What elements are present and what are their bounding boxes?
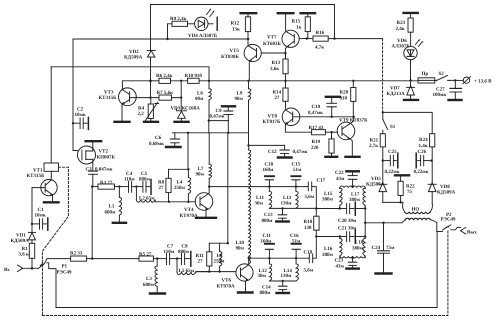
svg-text:R2 33: R2 33: [70, 250, 83, 256]
svg-text:VD6: VD6: [397, 38, 407, 44]
svg-text:C2: C2: [77, 107, 84, 113]
inductor L11: [268, 187, 270, 192]
wire vertical x150.5 mid: [150, 58, 152, 98]
svg-text:R12: R12: [231, 21, 240, 27]
svg-text:1к: 1к: [296, 25, 302, 31]
svg-text:2,4к: 2,4к: [396, 26, 405, 32]
svg-text:Вх: Вх: [4, 267, 10, 273]
svg-text:L9: L9: [237, 91, 243, 97]
inductor L5: [176, 259, 178, 273]
svg-text:2,7к: 2,7к: [369, 143, 378, 149]
relay coil P1: [44, 163, 59, 171]
wire lower input y258.6: [138, 258, 140, 260]
capacitor C13: [269, 207, 316, 209]
wire VD5/R22 to НО: [383, 201, 403, 203]
resistor R8: [168, 169, 170, 178]
node R3 left: [91, 185, 93, 187]
svg-text:75м: 75м: [386, 245, 395, 251]
LED VD4: [195, 17, 208, 30]
ground VD3: [175, 121, 189, 123]
svg-text:880м: 880м: [139, 176, 151, 182]
resistor R7: [159, 95, 172, 100]
svg-text:Пр: Пр: [422, 71, 429, 77]
ground C24: [376, 272, 392, 274]
ground VT9: [346, 156, 360, 158]
capacitor C25: [382, 159, 384, 161]
svg-text:90м: 90м: [236, 246, 245, 252]
svg-text:250м: 250м: [174, 185, 186, 191]
svg-text:L4: L4: [177, 180, 183, 186]
capacitor C10: [268, 185, 270, 187]
svg-text:C13: C13: [264, 212, 273, 218]
svg-text:VT6: VT6: [222, 278, 232, 284]
svg-text:130м: 130м: [281, 273, 293, 279]
inductor L8: [219, 250, 221, 251]
svg-text:130: 130: [304, 225, 312, 231]
resistor R9: [172, 21, 188, 26]
svg-text:C26: C26: [418, 149, 427, 155]
inductor L13: [295, 187, 297, 192]
terminal Вх: [18, 265, 23, 272]
svg-text:КТ315Б: КТ315Б: [27, 173, 45, 179]
power bar R23: [404, 12, 418, 14]
capacitor C20: [339, 207, 341, 209]
transistor VT3: [119, 88, 137, 106]
svg-text:R20: R20: [340, 90, 349, 96]
capacitor C23: [340, 257, 365, 258]
svg-text:5,6м: 5,6м: [305, 194, 315, 200]
svg-text:+ 13,6 В: + 13,6 В: [474, 79, 492, 85]
svg-text:L13: L13: [283, 195, 292, 201]
svg-text:C7: C7: [167, 243, 174, 249]
svg-text:VD5: VD5: [371, 176, 381, 182]
ground VT4: [196, 217, 216, 219]
relay contact P2: [436, 223, 438, 232]
svg-text:880м: 880м: [178, 249, 190, 255]
transformer НО lower winding: [402, 220, 405, 223]
ground C6: [166, 146, 181, 148]
svg-text:160м: 160м: [263, 167, 275, 173]
transistor VT4: [195, 193, 213, 211]
ground C12: [278, 156, 292, 158]
resistor R16: [313, 36, 328, 41]
svg-text:R4: R4: [138, 106, 145, 112]
inductor L7: [208, 178, 210, 186]
capacitor C4: [129, 181, 132, 192]
inductor L10 long: [248, 145, 250, 150]
svg-text:2,2: 2,2: [138, 111, 145, 117]
diode VD7: [407, 86, 415, 88]
resistor R14: [285, 81, 287, 88]
capacitor C18: [307, 257, 310, 259]
svg-text:0,047мк: 0,047мк: [95, 167, 113, 173]
svg-text:30м: 30м: [258, 273, 267, 279]
ground VT1: [44, 201, 59, 203]
capacitor C26: [415, 153, 417, 168]
switch S2: [435, 75, 456, 80]
svg-text:43м: 43м: [336, 263, 345, 269]
ground C23: [346, 267, 358, 269]
wire VT2 source to lower channel: [91, 187, 93, 259]
zener VD3: [177, 109, 187, 111]
capacitor C5: [136, 186, 142, 188]
wire upper channel output y186.6: [209, 186, 307, 188]
transistor VT7: [282, 30, 299, 47]
diode VD5: [382, 161, 384, 185]
inductor L1: [118, 187, 120, 198]
svg-text:130м: 130м: [281, 200, 293, 206]
resistor R13: [285, 53, 287, 59]
svg-text:910: 910: [340, 96, 348, 102]
svg-text:КТ817Б: КТ817Б: [263, 119, 281, 125]
LED VD6: [404, 46, 417, 59]
ground L3: [150, 292, 165, 294]
svg-text:10мк: 10мк: [75, 112, 86, 118]
svg-text:КД509А: КД509А: [11, 238, 30, 244]
node R6-R10 junction: [180, 80, 182, 82]
resistor R6: [159, 78, 171, 83]
svg-text:L7: L7: [198, 166, 204, 172]
wire main rail y80.8: [151, 80, 160, 82]
svg-text:R3 27: R3 27: [100, 180, 113, 186]
svg-text:90м: 90м: [196, 172, 205, 178]
svg-text:РЭС49: РЭС49: [441, 217, 457, 223]
svg-text:3,6к: 3,6к: [270, 66, 279, 72]
inductor L12: [268, 258, 270, 264]
svg-text:C4: C4: [126, 171, 133, 177]
capacitor C3: [92, 164, 94, 171]
resistor R20: [352, 80, 354, 82]
power bar 1: [241, 12, 257, 14]
svg-text:R10 910: R10 910: [185, 73, 203, 79]
svg-text:VT3: VT3: [104, 90, 114, 96]
svg-text:P1: P1: [62, 264, 68, 270]
capacitor C15: [295, 185, 297, 187]
ground R4: [144, 121, 158, 123]
svg-text:S1: S1: [390, 124, 396, 130]
svg-text:КП007Б: КП007Б: [97, 155, 116, 161]
wire receive bypass: [56, 232, 437, 308]
resistor R5: [139, 256, 154, 261]
resistor R11: [208, 250, 210, 252]
ground C13: [276, 220, 288, 222]
dashed bottom linkage: [42, 231, 448, 316]
wire relay supply y67.5: [51, 67, 209, 81]
svg-text:R23: R23: [397, 20, 406, 26]
ground VT6: [238, 291, 253, 293]
svg-text:КТ970А: КТ970А: [180, 213, 198, 219]
svg-text:0,47мк: 0,47мк: [210, 114, 225, 120]
resistor R3: [98, 184, 115, 189]
svg-text:L18: L18: [355, 239, 364, 245]
ground VD7: [404, 99, 418, 101]
wire L17 tap to НО: [364, 209, 366, 237]
svg-text:C16: C16: [290, 233, 299, 239]
svg-text:КД213А: КД213А: [387, 91, 406, 97]
capacitor C12: [284, 145, 286, 149]
ground C27: [449, 99, 462, 101]
svg-text:250м: 250м: [214, 259, 226, 265]
svg-text:C24: C24: [372, 245, 381, 251]
wire VT3 emitter to ground: [121, 105, 123, 121]
svg-text:75: 75: [407, 189, 413, 195]
svg-text:L5 65м: L5 65м: [179, 268, 195, 274]
thermistor R4: [150, 98, 152, 104]
svg-text:0,68мк: 0,68мк: [149, 141, 164, 147]
inductor L6: [208, 80, 210, 82]
resistor R23: [410, 14, 412, 18]
svg-text:КТ315Б: КТ315Б: [99, 95, 117, 101]
svg-text:C10: C10: [265, 161, 274, 167]
svg-text:VT5: VT5: [230, 48, 240, 54]
transformer НО upper winding: [403, 202, 405, 212]
transistor VT8: [282, 108, 300, 126]
svg-text:600м: 600м: [105, 210, 117, 216]
capacitor C19: [331, 107, 333, 117]
transistor VT5: [244, 44, 261, 61]
wire VT7 base: [299, 38, 313, 40]
svg-text:НО: НО: [412, 207, 420, 213]
svg-text:27: 27: [198, 259, 204, 265]
inductor L14: [295, 258, 297, 264]
svg-text:51м: 51м: [292, 239, 301, 245]
capacitor C17: [307, 186, 308, 188]
svg-text:51м: 51м: [293, 167, 302, 173]
wire R11/L8 top rail: [209, 242, 228, 244]
inductor L3: [156, 259, 158, 266]
resistor R15: [307, 14, 309, 17]
svg-text:L6: L6: [197, 91, 203, 97]
power bar 2: [278, 12, 294, 14]
node R6 junction: [166, 38, 168, 40]
resistor R17: [312, 130, 326, 135]
wire lower channel output y258.2: [248, 257, 250, 259]
svg-text:R17 43: R17 43: [309, 125, 324, 131]
svg-text:L2 65м: L2 65м: [139, 196, 155, 202]
inductor L4: [187, 169, 189, 177]
wire vertical x150.5 top: [150, 5, 152, 51]
svg-text:C11: C11: [263, 233, 272, 239]
inductor L18: [364, 237, 366, 239]
ground L1: [113, 222, 126, 224]
wire tank top y186.3: [340, 186, 365, 189]
capacitor C11: [268, 257, 270, 259]
wire +13.6 rail into shield: [150, 80, 152, 82]
svg-text:880м: 880м: [260, 290, 272, 296]
svg-text:10мк: 10мк: [35, 213, 46, 219]
svg-text:C19: C19: [312, 104, 321, 110]
svg-text:0,22мк: 0,22мк: [414, 169, 429, 175]
relay contact P1: [38, 259, 46, 268]
svg-text:VD2: VD2: [129, 49, 139, 55]
svg-text:VT8: VT8: [268, 114, 278, 120]
svg-text:VT1: VT1: [33, 168, 43, 174]
svg-text:0,47мк: 0,47мк: [308, 110, 323, 116]
svg-text:VT4: VT4: [184, 207, 194, 213]
svg-text:13к: 13к: [232, 27, 240, 33]
svg-text:C21 39м: C21 39м: [338, 226, 357, 232]
svg-text:R16: R16: [316, 30, 325, 36]
svg-text:220: 220: [311, 145, 319, 151]
svg-text:C8: C8: [182, 243, 189, 249]
resistor R2: [71, 256, 87, 261]
svg-text:C15: C15: [292, 161, 301, 167]
svg-text:VD3 КС168А: VD3 КС168А: [171, 106, 201, 112]
svg-text:C3: C3: [86, 167, 93, 173]
ground C14: [277, 292, 289, 294]
svg-text:R8: R8: [158, 180, 165, 186]
svg-text:КТ603Б: КТ603Б: [263, 41, 281, 47]
svg-text:C14: C14: [262, 285, 271, 291]
svg-text:L8: L8: [217, 253, 223, 259]
svg-text:КТ830Б: КТ830Б: [221, 54, 239, 60]
svg-text:C5: C5: [141, 171, 148, 177]
svg-text:VT7: VT7: [267, 35, 277, 41]
svg-text:0,47мк: 0,47мк: [293, 149, 308, 155]
svg-text:3,6 к: 3,6 к: [19, 252, 30, 258]
svg-text:КД509А: КД509А: [124, 55, 143, 61]
svg-text:C18: C18: [304, 249, 313, 255]
inductor L17: [363, 188, 365, 206]
svg-text:VD8: VD8: [440, 184, 450, 190]
svg-text:R7 5,6к: R7 5,6к: [157, 90, 174, 96]
svg-text:43м: 43м: [336, 176, 345, 182]
wire relay coil drop x51.2: [50, 67, 52, 163]
svg-text:Вых: Вых: [467, 229, 477, 235]
capacitor C14: [269, 280, 296, 282]
inductor L2: [135, 187, 137, 200]
svg-text:1,4к: 1,4к: [419, 143, 428, 149]
svg-text:380м: 380м: [349, 197, 361, 203]
switch S1: [382, 111, 384, 113]
svg-text:27: 27: [159, 185, 165, 191]
node L18 top: [364, 235, 366, 237]
ground R19: [325, 156, 337, 158]
power bar R22: [395, 174, 409, 176]
wire VT6 base line: [196, 271, 236, 273]
svg-text:380м: 380м: [352, 245, 364, 251]
svg-text:R19: R19: [312, 139, 321, 145]
svg-text:L10: L10: [236, 240, 245, 246]
wire R9 tap: [168, 24, 173, 39]
svg-text:R6 2,4к: R6 2,4к: [156, 73, 173, 79]
capacitor C8: [177, 258, 181, 260]
svg-text:L1: L1: [109, 204, 115, 210]
transistor VT1: [50, 171, 52, 179]
inductor L9: [247, 80, 249, 82]
wire long driver x227.8: [227, 133, 229, 243]
capacitor C27: [454, 80, 456, 88]
svg-text:VD7: VD7: [390, 86, 400, 92]
transistor VT2 FET: [78, 146, 96, 164]
svg-text:КД509А: КД509А: [366, 181, 385, 187]
svg-text:L15: L15: [324, 191, 333, 197]
svg-text:100мк: 100мк: [433, 92, 447, 98]
svg-text:C9: C9: [216, 108, 223, 114]
svg-text:30м: 30м: [255, 200, 264, 206]
wire VT8 emitter: [285, 125, 311, 133]
svg-text:R24: R24: [419, 137, 428, 143]
ground VT3: [115, 121, 130, 123]
svg-text:4,7к: 4,7к: [315, 45, 324, 51]
capacitor C22: [352, 180, 354, 187]
svg-text:R13: R13: [272, 60, 281, 66]
wire VT1 base: [32, 188, 45, 224]
resistor R21: [380, 134, 385, 147]
fuse Пр: [418, 78, 435, 83]
svg-text:C17: C17: [317, 177, 326, 183]
wire top rail: [151, 4, 335, 6]
svg-text:C20 39м: C20 39м: [338, 218, 357, 224]
svg-text:VT9 КТ837Б: VT9 КТ837Б: [339, 117, 368, 123]
svg-text:R21: R21: [370, 138, 379, 144]
svg-text:C22: C22: [335, 170, 344, 176]
node L9 to C12: [247, 144, 249, 146]
svg-text:VD1: VD1: [16, 233, 26, 239]
svg-text:C27: C27: [436, 87, 445, 93]
capacitor C9: [208, 119, 210, 121]
resistor R19: [331, 132, 333, 139]
svg-text:R14: R14: [273, 90, 282, 96]
svg-text:VD4 АЛ307Б: VD4 АЛ307Б: [188, 33, 218, 39]
transistor VT6: [236, 264, 253, 281]
wire AGC line y39: [73, 38, 249, 40]
resistor R12: [247, 14, 249, 17]
svg-text:R22: R22: [406, 183, 415, 189]
svg-text:90м: 90м: [195, 96, 204, 102]
svg-text:АЛ307Б: АЛ307Б: [392, 43, 411, 49]
wire left vertical x73 to VT2 gate: [73, 39, 78, 151]
svg-text:800м: 800м: [262, 218, 274, 224]
wire S1 rail to R24: [383, 112, 432, 133]
resistor R18: [315, 207, 317, 209]
dashed mech link P1: [42, 167, 68, 315]
svg-text:600м: 600м: [143, 282, 155, 288]
resistor R22: [400, 177, 402, 182]
svg-text:C23: C23: [335, 257, 344, 263]
power bar VT2: [86, 140, 102, 142]
svg-text:90м: 90м: [235, 96, 244, 102]
capacitor C6: [174, 133, 176, 139]
capacitor C21: [339, 235, 341, 237]
capacitor C24: [383, 223, 385, 251]
svg-text:R15: R15: [292, 19, 301, 25]
wire x188 joins R8 rail: [187, 133, 189, 170]
svg-text:380м: 380м: [322, 197, 334, 203]
diode VD1: [31, 224, 33, 233]
power bar 3: [301, 12, 315, 14]
inductor L16: [339, 237, 341, 239]
svg-text:R5 27: R5 27: [139, 251, 152, 257]
svg-text:VT2: VT2: [99, 149, 109, 155]
wire driver line y132.8: [172, 132, 248, 134]
svg-text:C1: C1: [38, 207, 45, 213]
terminal Вых: [461, 227, 466, 234]
svg-text:КД509А: КД509А: [437, 190, 456, 196]
wire R8/L4 top rail: [169, 168, 189, 170]
svg-text:L17: L17: [351, 191, 360, 197]
svg-text:РЭС49: РЭС49: [57, 270, 73, 276]
diode VD8: [431, 161, 433, 185]
terminal +13.6V: [455, 79, 462, 81]
capacitor C2: [72, 122, 74, 124]
svg-text:110м: 110м: [124, 176, 135, 182]
svg-text:R9 2,4к: R9 2,4к: [170, 16, 187, 22]
svg-text:КТ970А: КТ970А: [217, 284, 235, 290]
svg-text:L11: L11: [256, 195, 265, 201]
svg-text:R1: R1: [22, 246, 29, 252]
wire x181.2 down to R7/VD3: [180, 81, 182, 111]
